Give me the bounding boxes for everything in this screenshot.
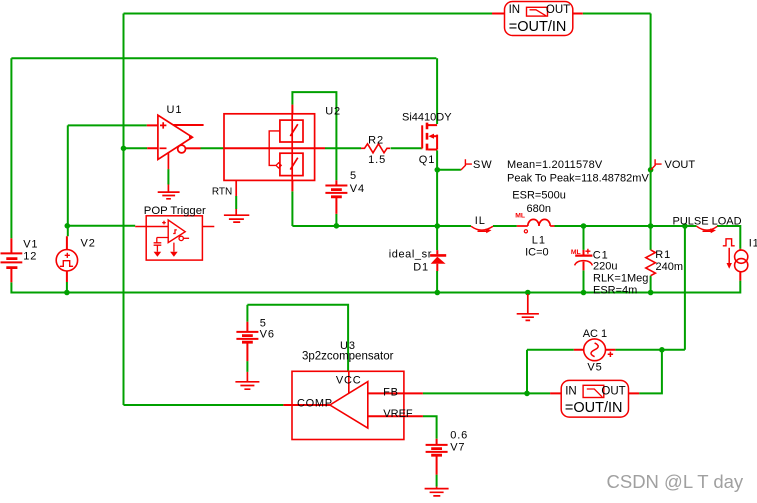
svg-text:U1: U1 bbox=[167, 104, 183, 116]
svg-text:240m: 240m bbox=[656, 261, 684, 273]
svg-text:ESR=500u: ESR=500u bbox=[512, 190, 566, 202]
svg-text:ideal_sr: ideal_sr bbox=[389, 249, 432, 261]
svg-text:=OUT/IN: =OUT/IN bbox=[565, 400, 623, 416]
svg-text:VOUT: VOUT bbox=[665, 159, 696, 171]
svg-text:V4: V4 bbox=[350, 183, 365, 195]
svg-text:ML: ML bbox=[571, 249, 581, 256]
svg-text:IC=0: IC=0 bbox=[525, 247, 549, 259]
svg-text:12: 12 bbox=[23, 251, 37, 263]
svg-text:R1: R1 bbox=[655, 249, 671, 261]
svg-text:VREF: VREF bbox=[383, 408, 413, 420]
svg-text:V5: V5 bbox=[587, 362, 602, 374]
svg-text:COMP: COMP bbox=[297, 398, 333, 410]
svg-text:RTN: RTN bbox=[212, 187, 232, 198]
svg-text:VCC: VCC bbox=[336, 375, 362, 387]
svg-text:=OUT/IN: =OUT/IN bbox=[509, 19, 567, 35]
svg-text:680n: 680n bbox=[527, 203, 551, 215]
svg-text:PULSE LOAD: PULSE LOAD bbox=[673, 216, 742, 228]
svg-text:IL: IL bbox=[475, 215, 486, 227]
svg-text:R2: R2 bbox=[368, 135, 384, 147]
svg-text:3p2zcompensator: 3p2zcompensator bbox=[302, 351, 394, 363]
svg-text:Q1: Q1 bbox=[419, 154, 435, 166]
svg-text:SW: SW bbox=[473, 159, 493, 171]
svg-text:L1: L1 bbox=[532, 235, 546, 247]
svg-text:5: 5 bbox=[350, 170, 356, 182]
svg-text:AC 1: AC 1 bbox=[583, 328, 607, 340]
svg-text:0.6: 0.6 bbox=[450, 430, 468, 442]
svg-text:IN: IN bbox=[565, 386, 577, 398]
svg-text:OUT: OUT bbox=[601, 386, 625, 398]
svg-text:ML: ML bbox=[515, 212, 525, 219]
svg-text:I1: I1 bbox=[749, 238, 757, 250]
svg-text:V2: V2 bbox=[81, 238, 96, 250]
svg-text:IN: IN bbox=[509, 4, 520, 16]
svg-text:RLK=1Meg: RLK=1Meg bbox=[593, 273, 648, 285]
svg-text:U2: U2 bbox=[325, 106, 341, 118]
svg-text:220u: 220u bbox=[593, 261, 617, 273]
svg-text:Mean=1.2011578V: Mean=1.2011578V bbox=[507, 159, 603, 171]
svg-text:CSDN @L T day: CSDN @L T day bbox=[607, 471, 744, 492]
svg-text:V1: V1 bbox=[23, 239, 38, 251]
svg-text:D1: D1 bbox=[413, 262, 429, 274]
svg-text:Peak To Peak=118.48782mV: Peak To Peak=118.48782mV bbox=[507, 173, 649, 185]
svg-text:ESR=4m: ESR=4m bbox=[593, 285, 637, 297]
svg-text:OUT: OUT bbox=[546, 4, 570, 16]
svg-text:Si4410DY: Si4410DY bbox=[402, 112, 452, 124]
svg-text:POP Trigger: POP Trigger bbox=[144, 205, 206, 217]
svg-text:V6: V6 bbox=[260, 329, 275, 341]
svg-text:1.5: 1.5 bbox=[368, 154, 386, 166]
svg-text:V7: V7 bbox=[450, 442, 465, 454]
svg-text:FB: FB bbox=[383, 387, 399, 399]
